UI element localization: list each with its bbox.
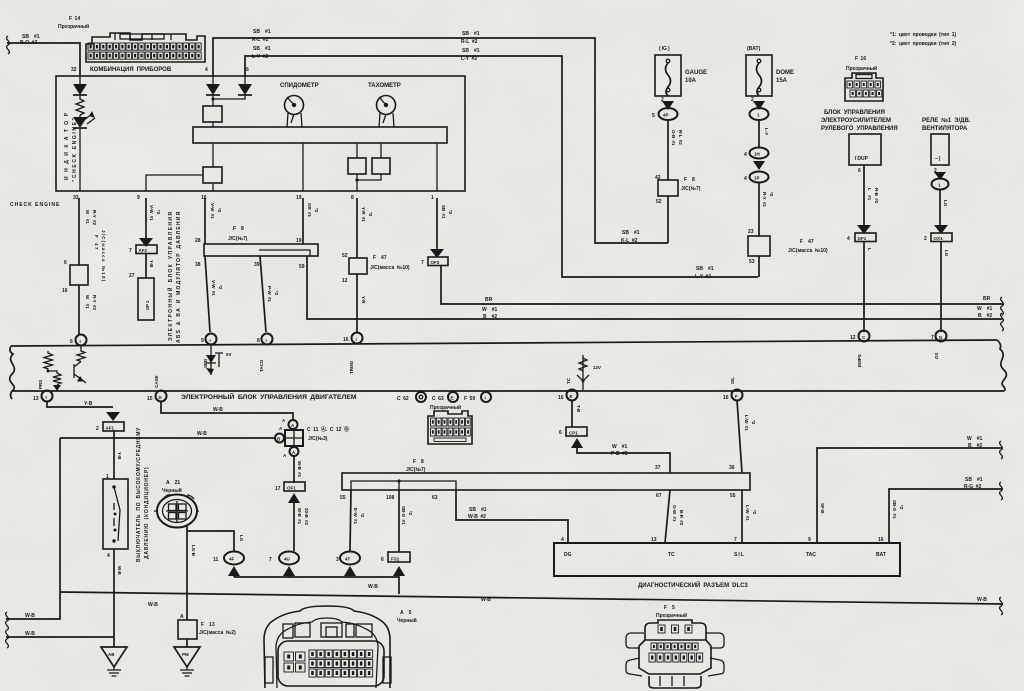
svg-text:4P: 4P (663, 113, 669, 118)
svg-text:P-B #2: P-B #2 (611, 451, 628, 457)
svg-text:Y-B: Y-B (117, 452, 122, 460)
svg-text:ЭЛЕКТРОННЫЙ БЛОК УПРАВЛЕНИЯ: ЭЛЕКТРОННЫЙ БЛОК УПРАВЛЕНИЯ (166, 211, 174, 341)
svg-text:C 62: C 62 (397, 396, 409, 402)
svg-text:4: 4 (744, 176, 747, 182)
svg-text:W #1: W #1 (612, 444, 628, 450)
instrument cluster box (56, 76, 465, 191)
svg-text:W-B #1: W-B #1 (297, 461, 302, 478)
svg-text:L-Y: L-Y (764, 128, 769, 135)
wire SB B-O from torn edge to pin 32 (7, 34, 80, 76)
wire bar 63 to DLC3 DG (456, 490, 568, 543)
svg-text:ЭЛЕКТРОННЫЙ БЛОК УПРАВЛЕНИЯ ДВ: ЭЛЕКТРОННЫЙ БЛОК УПРАВЛЕНИЯ ДВИГАТЕЛЕМ (181, 392, 357, 401)
svg-text:7: 7 (269, 557, 272, 563)
svg-text:W #1: W #1 (85, 295, 90, 309)
svg-text:T-B: T-B (576, 405, 581, 413)
wire pin1 to OF3 (421, 198, 453, 266)
svg-text:P-W #1: P-W #1 (267, 286, 272, 303)
svg-text:I: I (80, 339, 81, 344)
svg-text:OF1: OF1 (287, 486, 296, 491)
svg-text:TC: TC (566, 377, 571, 384)
svg-text:ВЕНТИЛЯТОРА: ВЕНТИЛЯТОРА (922, 126, 968, 132)
svg-text:*2: *2 (899, 505, 904, 510)
svg-text:S I L: S I L (734, 552, 744, 558)
svg-text:4T: 4T (345, 557, 351, 562)
svg-text:*2: *2 (408, 511, 413, 516)
svg-text:E-W #1: E-W #1 (353, 508, 358, 525)
svg-text:F 47: F 47 (94, 235, 99, 251)
svg-text:A: A (180, 614, 184, 620)
svg-text:*2: *2 (368, 212, 373, 217)
svg-text:L-Y #2: L-Y #2 (252, 54, 268, 60)
svg-text:V-W #1: V-W #1 (210, 203, 215, 219)
svg-text:15A: 15A (776, 78, 788, 84)
svg-text:DG: DG (564, 552, 572, 558)
svg-text:R-G #2: R-G #2 (964, 484, 981, 490)
svg-text:SB-G #1: SB-G #1 (401, 506, 406, 525)
ground G2 (174, 639, 200, 676)
svg-text:10A: 10A (685, 78, 697, 84)
note wire colors (890, 32, 956, 47)
svg-text:SB #1: SB #1 (253, 29, 271, 35)
svg-text:B-O #2: B-O #2 (20, 40, 37, 46)
junction J/C No3 (275, 418, 349, 458)
svg-text:55: 55 (340, 495, 346, 501)
svg-text:28: 28 (195, 238, 201, 244)
svg-text:W #1: W #1 (85, 210, 90, 224)
svg-text:B-R #2: B-R #2 (679, 510, 684, 526)
connector 4 GF1 (847, 225, 876, 332)
svg-text:W-B: W-B (148, 602, 158, 608)
wire connecting grounds of 4F 4U 4T FS1 (234, 577, 399, 594)
svg-text:12: 12 (850, 335, 856, 341)
fuse GAUGE 10A (655, 46, 707, 103)
svg-text:SB #1: SB #1 (462, 31, 480, 37)
connector F14 (instrument cluster connector) (58, 16, 205, 73)
svg-text:ВЫКЛЮЧАТЕЛЬ ПО ВЫСОКОМУ/СРЕДНЕ: ВЫКЛЮЧАТЕЛЬ ПО ВЫСОКОМУ/СРЕДНЕМУ (136, 427, 142, 562)
wire W-B long bottom (60, 592, 1002, 615)
svg-text:Прозрачный: Прозрачный (656, 612, 687, 619)
svg-text:I: I (210, 338, 211, 343)
svg-text:4: 4 (205, 67, 208, 73)
svg-text:I: I (266, 338, 267, 343)
connector 4(1P) (744, 172, 774, 237)
svg-text:20-B #2: 20-B #2 (304, 508, 309, 526)
svg-text:OX1: OX1 (934, 236, 944, 241)
svg-text:J/C(№7): J/C(№7) (406, 467, 426, 473)
wire W-B torn 1 (6, 592, 60, 630)
svg-text:5V: 5V (226, 352, 232, 357)
connector 5(4P) (652, 101, 683, 180)
svg-text:W #1: W #1 (482, 307, 498, 313)
connector 3(4T) (336, 552, 360, 578)
svg-text:16: 16 (343, 337, 349, 343)
wire pin8 via J/C masse No10 to ECU TRMO (342, 198, 410, 332)
speedometer gauge (280, 83, 319, 127)
svg-text:F 16: F 16 (855, 56, 866, 62)
svg-text:6: 6 (381, 557, 384, 563)
cluster bottom pin numbers (73, 195, 434, 201)
svg-text:W-B: W-B (25, 613, 35, 619)
ECU internal TC 12V circuit (566, 355, 601, 390)
svg-text:39: 39 (254, 262, 260, 268)
svg-text:SB #1: SB #1 (441, 205, 446, 219)
svg-text:AF1: AF1 (106, 426, 115, 431)
svg-text:PM: PM (182, 652, 189, 657)
svg-text:J/C(масса №10): J/C(масса №10) (370, 265, 410, 271)
svg-text:AF2: AF2 (139, 248, 148, 253)
ECU band (engine control module) (10, 340, 1007, 399)
svg-text:7: 7 (931, 335, 934, 341)
wire SB L-Y from cluster pin 6 to DOME junction (245, 46, 758, 280)
svg-text:27: 27 (129, 273, 135, 279)
diode D3 on pin6 wire (211, 76, 252, 101)
wire AF1 to pressure switch (114, 431, 122, 479)
svg-text:*2: *2 (751, 420, 756, 425)
svg-text:9: 9 (201, 338, 204, 344)
svg-text:5: 5 (652, 113, 655, 119)
wire ECU 16F to J/C bar pin 36 (737, 400, 756, 473)
label pressure switch (vertical) (136, 427, 150, 562)
svg-text:36: 36 (729, 465, 735, 471)
svg-text:38: 38 (195, 262, 201, 268)
svg-text:C 63: C 63 (432, 396, 444, 402)
svg-text:63: 63 (432, 495, 438, 501)
svg-text:W-B: W-B (197, 431, 207, 437)
svg-text:R-B #2: R-B #2 (874, 188, 879, 204)
svg-text:V-W #1: V-W #1 (149, 205, 154, 221)
svg-text:23: 23 (748, 229, 754, 235)
svg-text:F 8: F 8 (684, 177, 695, 183)
wire BAT to right edge (878, 477, 1002, 543)
svg-text:2: 2 (924, 236, 927, 242)
svg-text:DOME: DOME (776, 70, 794, 76)
wire bar 55R to DLC3 SIL (734, 490, 757, 543)
fan relay No1 (922, 117, 971, 225)
svg-text:4: 4 (744, 152, 747, 158)
svg-text:J/C(№7): J/C(№7) (228, 236, 248, 242)
svg-text:BR: BR (983, 296, 991, 302)
svg-text:*2: *2 (274, 291, 279, 296)
svg-text:55: 55 (730, 493, 736, 499)
svg-text:W-B: W-B (368, 584, 378, 590)
svg-text:12: 12 (342, 278, 348, 284)
svg-text:W-B #2: W-B #2 (468, 514, 486, 520)
svg-text:B #2: B #2 (968, 443, 982, 449)
svg-text:ДАВЛЕНИЮ (КОНДИЦИОНЕР): ДАВЛЕНИЮ (КОНДИЦИОНЕР) (144, 467, 150, 559)
svg-text:ИНДИКАТОР: ИНДИКАТОР (64, 109, 70, 180)
svg-text:*2: *2 (217, 208, 222, 213)
fuse DOME 15A (746, 46, 794, 103)
wire switch pin4 to ground (114, 549, 122, 647)
svg-text:W-B #1: W-B #1 (297, 508, 302, 525)
svg-text:16: 16 (723, 395, 729, 401)
svg-text:J/C(№3): J/C(№3) (308, 436, 328, 442)
svg-text:32: 32 (71, 67, 77, 73)
svg-text:Черный: Черный (162, 487, 182, 494)
svg-text:РЕЛЕ №1 Э/ДВ.: РЕЛЕ №1 Э/ДВ. (922, 117, 971, 124)
wire bar 108 to FS1 (399, 490, 413, 552)
connector 11(4F) (213, 552, 244, 578)
svg-text:2: 2 (751, 97, 754, 103)
svg-text:TRMO: TRMO (349, 360, 354, 374)
svg-text:CP1: CP1 (569, 431, 578, 436)
svg-text:*1: цвет проводки (тип 1): *1: цвет проводки (тип 1) (890, 32, 956, 38)
svg-text:*2: *2 (752, 510, 757, 515)
wire W-B to J/C No3 left (60, 431, 274, 438)
svg-text:W #1: W #1 (967, 436, 983, 442)
svg-text:SIL: SIL (730, 377, 735, 384)
svg-text:Y-B: Y-B (84, 401, 93, 407)
svg-text:СПИДОМЕТР: СПИДОМЕТР (280, 83, 319, 89)
svg-text:L-W #1: L-W #1 (744, 415, 749, 431)
svg-text:16: 16 (201, 195, 207, 201)
svg-text:59: 59 (299, 264, 305, 270)
svg-text:67: 67 (656, 493, 662, 499)
svg-text:*2: *2 (218, 285, 223, 290)
svg-text:F 8: F 8 (233, 226, 244, 232)
wire SB R-L from cluster pin 4 to GAUGE junction (213, 29, 668, 243)
svg-text:РУЛЕВОГО УПРАВЛЕНИЯ: РУЛЕВОГО УПРАВЛЕНИЯ (821, 126, 898, 132)
svg-text:TC: TC (668, 552, 675, 558)
component box B2 below bar with branch to pin 9 (146, 143, 222, 191)
wire bar 67 to DLC3 TC (651, 490, 684, 543)
svg-text:W-B: W-B (117, 566, 122, 576)
svg-text:(BAT): (BAT) (747, 46, 761, 52)
svg-text:W-B: W-B (25, 631, 35, 637)
svg-text:6: 6 (858, 168, 861, 174)
svg-text:4: 4 (847, 236, 850, 242)
wire pin19 down to J/C No7 pin 19 (303, 198, 319, 244)
svg-text:E: E (451, 396, 454, 401)
label ABS control unit (vertical) (166, 211, 182, 343)
wire pin9 to AF2 and SP1 (129, 198, 161, 278)
svg-text:52: 52 (656, 199, 662, 205)
power steering control block IDUP (821, 110, 898, 233)
svg-text:6: 6 (246, 67, 249, 73)
svg-text:*2: *2 (156, 210, 161, 215)
connector 6 FS1 (381, 552, 410, 576)
svg-text:W #1: W #1 (977, 306, 993, 312)
svg-text:J/C(№7): J/C(№7) (681, 186, 701, 192)
wire A21 chain pin A to J/C masse No2 (178, 614, 236, 639)
svg-text:15: 15 (147, 396, 153, 402)
svg-text:W-B: W-B (977, 597, 987, 603)
svg-text:Прозрачный: Прозрачный (58, 23, 89, 30)
wire pin16 down to J/C No7 pin 28 (205, 198, 222, 244)
svg-text:53: 53 (749, 259, 755, 265)
svg-text:L #1: L #1 (867, 188, 872, 201)
svg-text:R-L #2: R-L #2 (461, 39, 478, 45)
svg-text:4F: 4F (229, 557, 235, 562)
svg-text:*2: цвет проводки (тип 2): *2: цвет проводки (тип 2) (890, 41, 956, 47)
component boxes B3 B4 below bar (348, 143, 390, 191)
bus bar inside cluster (193, 127, 447, 143)
svg-text:12V: 12V (593, 365, 601, 370)
svg-text:G-W #1: G-W #1 (672, 505, 677, 522)
ground G1 (101, 647, 127, 676)
svg-text:I DUP: I DUP (855, 156, 869, 162)
svg-text:J/C(масса №2): J/C(масса №2) (199, 630, 236, 636)
svg-text:I: I (356, 337, 357, 342)
sensor SP1 (129, 273, 154, 320)
svg-text:4U: 4U (284, 557, 290, 562)
svg-text:19: 19 (296, 195, 302, 201)
svg-text:F 5: F 5 (664, 605, 675, 611)
svg-text:CHECK ENGINE: CHECK ENGINE (10, 202, 60, 208)
svg-text:КОМБИНАЦИЯ ПРИБОРОВ: КОМБИНАЦИЯ ПРИБОРОВ (90, 67, 172, 73)
svg-text:8: 8 (351, 195, 354, 201)
svg-text:J/C(масса №10): J/C(масса №10) (101, 230, 106, 282)
svg-text:6: 6 (70, 339, 73, 345)
svg-text:F 47: F 47 (800, 239, 814, 245)
svg-text:"CHECK ENGINE": "CHECK ENGINE" (72, 117, 78, 182)
svg-text:I: I (485, 396, 486, 401)
svg-text:OF3: OF3 (431, 260, 440, 265)
svg-text:C 11 Ⓐ. C 12 Ⓑ: C 11 Ⓐ. C 12 Ⓑ (307, 426, 349, 433)
svg-text:GAUGE: GAUGE (685, 70, 707, 76)
svg-text:– ): – ) (935, 156, 941, 162)
svg-text:K-L #2: K-L #2 (621, 238, 638, 244)
connector codes C62 C63 F59 (397, 392, 491, 402)
svg-text:W-B: W-B (481, 597, 491, 603)
wire W/B long from J/C No7 pin 59 to right edge (307, 256, 1003, 331)
svg-text:FS1: FS1 (391, 557, 400, 562)
svg-text:9: 9 (137, 195, 140, 201)
svg-text:I: I (46, 395, 47, 400)
connector A5 black (big) (264, 606, 417, 688)
wire W-B torn 2 (6, 630, 114, 648)
junction J/C masse No10 (DOME) (748, 229, 828, 277)
svg-text:6: 6 (559, 430, 562, 436)
LED check engine (73, 111, 95, 191)
svg-text:13: 13 (33, 396, 39, 402)
connector 2 OX1 (924, 225, 952, 332)
svg-text:R-L #2: R-L #2 (678, 130, 683, 145)
connector 4(1H) (744, 148, 769, 171)
svg-text:R-Y #1: R-Y #1 (762, 192, 767, 208)
svg-text:SB #1: SB #1 (462, 48, 480, 54)
svg-text:11: 11 (213, 557, 219, 563)
svg-text:SF-B: SF-B (820, 503, 825, 514)
svg-text:L: L (867, 248, 872, 251)
svg-text:L-W #1: L-W #1 (745, 505, 750, 521)
svg-text:W-B: W-B (213, 407, 223, 413)
connector F16 (845, 56, 883, 101)
connector A21 black (round) (154, 480, 199, 528)
connector 7(4U) (269, 552, 299, 578)
svg-text:B #2: B #2 (483, 314, 497, 320)
junction J/C No7 (mid) (195, 226, 318, 270)
wire ECU 16E to CP1 (559, 400, 670, 473)
wire pin33 to ECU via J/C masse No10 (62, 198, 106, 335)
svg-text:F: F (735, 394, 738, 399)
wire ECU 15 W-B to J/C No3 top (161, 401, 293, 420)
svg-text:37: 37 (655, 465, 661, 471)
svg-text:SB #1: SB #1 (253, 46, 271, 52)
wire J/C No3 to OF1 (294, 456, 302, 483)
svg-text:EMPS: EMPS (857, 354, 862, 367)
svg-text:БЛОК УПРАВЛЕНИЯ: БЛОК УПРАВЛЕНИЯ (824, 110, 885, 116)
svg-text:17: 17 (275, 486, 281, 492)
svg-text:Прозрачный: Прозрачный (846, 65, 877, 72)
svg-text:OX: OX (934, 352, 939, 359)
svg-text:Y-B: Y-B (149, 260, 154, 268)
svg-text:1: 1 (431, 195, 434, 201)
svg-text:F 59: F 59 (464, 396, 475, 402)
wire J/C pin38 to ECU SPD (205, 256, 223, 332)
svg-text:F 14: F 14 (69, 16, 80, 22)
resistor R1 check engine (76, 95, 84, 115)
svg-text:52: 52 (342, 253, 348, 259)
svg-text:*2: *2 (448, 210, 453, 215)
svg-text:SP 1: SP 1 (145, 300, 150, 310)
svg-text:BAT: BAT (876, 552, 886, 558)
wire W-B left riser (59, 438, 61, 592)
wire bar to pin 19 (302, 143, 304, 191)
svg-text:*2: *2 (769, 192, 774, 197)
svg-text:Y-R: Y-R (361, 296, 366, 304)
svg-text:F 8: F 8 (413, 459, 424, 465)
tachometer gauge (368, 83, 401, 127)
svg-text:7: 7 (129, 248, 132, 254)
svg-text:ЭЛЕКТРОУСИЛИТЕЛЕМ: ЭЛЕКТРОУСИЛИТЕЛЕМ (821, 118, 891, 124)
svg-text:R-L #2: R-L #2 (252, 37, 269, 43)
svg-text:R-Y #2: R-Y #2 (92, 295, 97, 311)
svg-text:SB #1: SB #1 (469, 507, 487, 513)
junction J/C No7 bottom bar (340, 459, 750, 501)
ECU bottom connectors (33, 390, 743, 403)
wire TAC to right edge (808, 436, 1002, 543)
connector 1 below DOME (750, 101, 770, 148)
svg-text:19: 19 (296, 238, 302, 244)
svg-text:1P: 1P (754, 176, 760, 181)
svg-text:E: E (570, 394, 573, 399)
component box B1 above bus bar (203, 106, 222, 127)
diagnostic connector DLC3 (554, 543, 900, 589)
svg-text:F 13: F 13 (201, 622, 215, 628)
wire BR from OF3 to right edge (441, 265, 1003, 315)
svg-text:O-B #1: O-B #1 (671, 130, 676, 146)
high/medium pressure switch (A/C) (103, 474, 128, 559)
junction J/C No7 (GAUGE) (655, 175, 701, 243)
svg-text:SB #1: SB #1 (696, 266, 714, 272)
connector 17 OF1 (275, 482, 309, 551)
svg-text:2: 2 (96, 426, 99, 432)
svg-text:ABS & BA И МОДУЛЯТОР ДАВЛЕНИЯ: ABS & BA И МОДУЛЯТОР ДАВЛЕНИЯ (176, 211, 182, 343)
wire ECU 13 to AF1 (47, 401, 124, 432)
svg-text:Y-R #1: Y-R #1 (361, 207, 366, 222)
wire A21 to F13 with branch to 11(4F) (187, 526, 244, 620)
svg-text:SB #1: SB #1 (622, 230, 640, 236)
svg-text:7: 7 (421, 260, 424, 266)
ECU internal PRS circuit (38, 346, 86, 391)
ECU internal SPD input (203, 344, 232, 375)
svg-text:TAC: TAC (806, 552, 816, 558)
svg-text:L-Y #2: L-Y #2 (695, 274, 711, 280)
svg-text:6: 6 (64, 260, 67, 266)
diode D1 (check engine feed) (73, 76, 87, 95)
svg-text:ДИАГНОСТИЧЕСКИЙ РАЗЪЕМ DLC3: ДИАГНОСТИЧЕСКИЙ РАЗЪЕМ DLC3 (638, 581, 748, 589)
svg-text:GF1: GF1 (858, 236, 867, 241)
svg-text:3: 3 (336, 557, 339, 563)
svg-text:R-Y #2: R-Y #2 (92, 210, 97, 226)
wire bar 55 to 3(4T) (350, 490, 365, 551)
svg-text:B #2: B #2 (978, 313, 992, 319)
svg-text:*2: *2 (360, 513, 365, 518)
svg-text:ТАХОМЕТР: ТАХОМЕТР (368, 83, 401, 89)
svg-text:PRS: PRS (38, 380, 43, 389)
svg-text:BR: BR (485, 297, 493, 303)
